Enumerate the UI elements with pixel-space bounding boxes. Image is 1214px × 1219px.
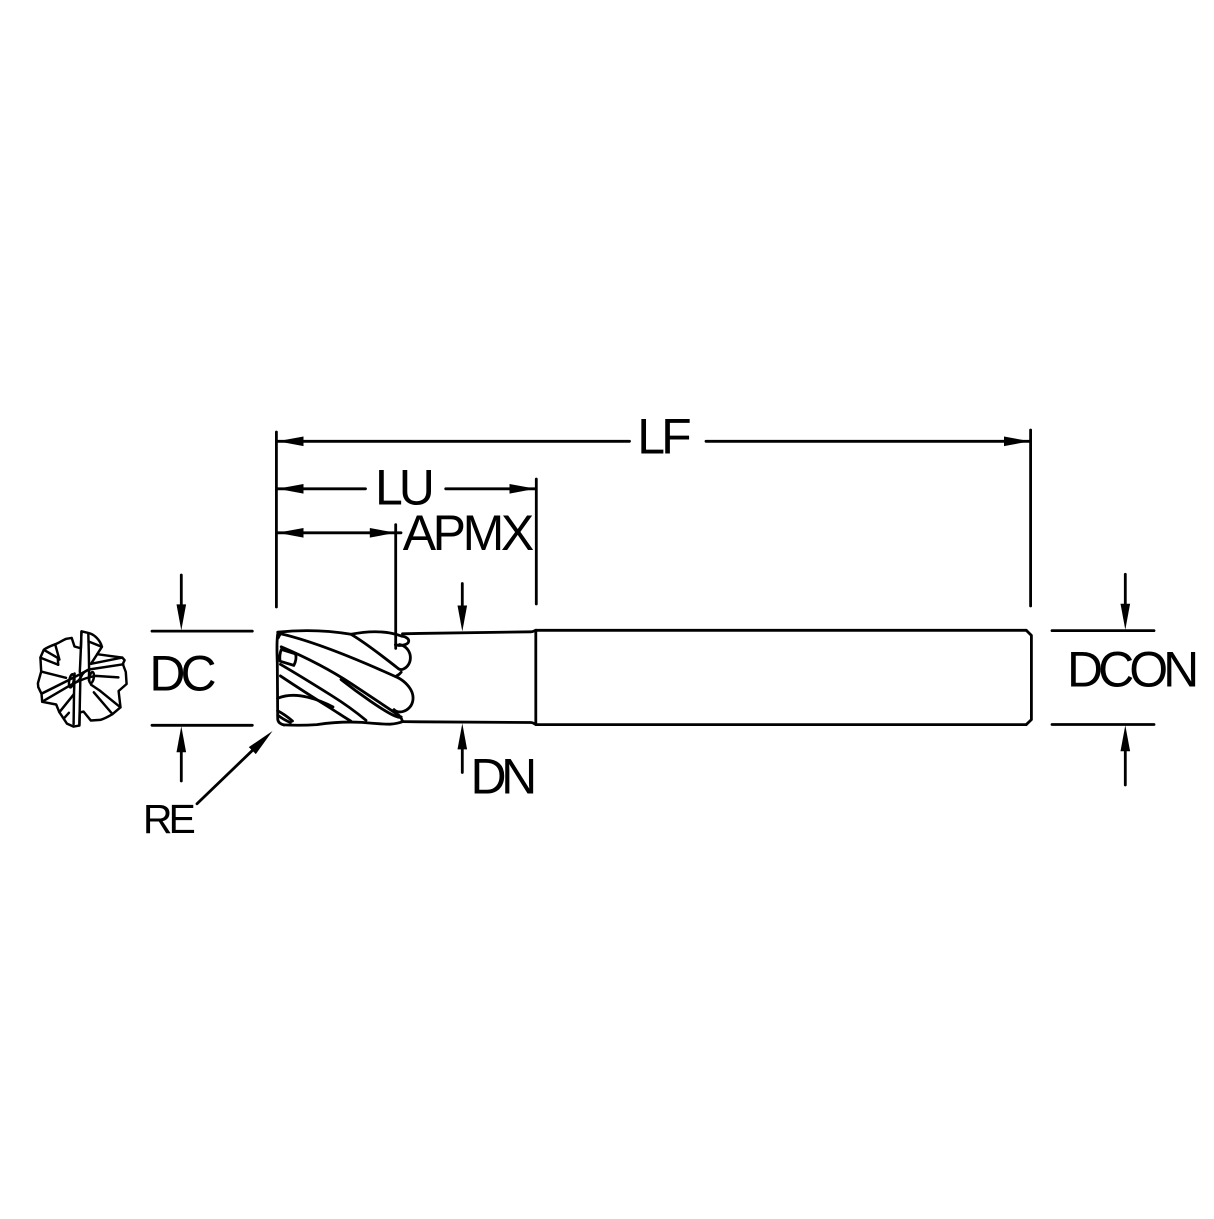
dimension line DCON bottom: [1052, 723, 1154, 726]
flute diagonal C long leaf: [281, 647, 402, 722]
arrowhead DCON up: [1121, 725, 1131, 751]
end view bar lower-right edge: [79, 677, 80, 726]
arrowhead LU right: [510, 484, 536, 494]
extension line LU right: [535, 479, 538, 604]
cap2 right: [399, 645, 411, 670]
end view right eye: [88, 672, 94, 684]
extension line LF right: [1029, 430, 1032, 606]
flute diagonal A: [351, 634, 399, 669]
extension line left (LF/LU/APMX origin): [275, 432, 278, 607]
leader line RE: [197, 748, 255, 803]
arrowhead DC up: [177, 726, 187, 752]
arrow tail DN down: [461, 584, 464, 607]
end view LR strip upper: [100, 691, 120, 707]
svg-text:APMX: APMX: [403, 505, 534, 561]
bottom-left leaf top: [278, 695, 333, 707]
shank end cap: [1026, 630, 1031, 724]
end view right strip upper: [91, 658, 122, 664]
svg-text:DC: DC: [149, 646, 215, 702]
svg-text:DCON: DCON: [1067, 642, 1196, 698]
arrowhead DC down: [177, 604, 187, 630]
dimension line DC top: [152, 630, 252, 633]
arrow tail DN up: [461, 749, 464, 773]
end view UL strip lower: [41, 658, 59, 665]
arrowhead LF left: [278, 437, 304, 447]
dimension line LF: [278, 440, 1031, 443]
arrowhead APMX right: [370, 528, 396, 538]
svg-text:RE: RE: [143, 796, 195, 842]
end view long diagonal 2: [42, 676, 118, 702]
flute sliver tip between caps: [397, 672, 401, 676]
dimension line LU: [278, 487, 536, 490]
end view silhouette: [38, 631, 127, 726]
end view left eye: [68, 674, 75, 688]
arrow tail DCON down: [1124, 574, 1127, 604]
shank step vertical: [534, 630, 537, 724]
end view BL wedge line: [64, 713, 69, 718]
cap1 top right: [395, 636, 408, 645]
dimension line DCON top: [1052, 629, 1154, 632]
neck bottom line: [403, 722, 537, 725]
bottom-left corner line: [278, 715, 291, 722]
arrowhead DN up: [458, 723, 468, 749]
end view UR wing radial: [89, 642, 102, 647]
arrow tail DC down: [180, 575, 183, 605]
arrowhead LU left: [278, 484, 304, 494]
svg-text:LF: LF: [637, 408, 690, 464]
dimension line APMX: [278, 531, 402, 534]
end view UL wing radial: [55, 644, 59, 659]
cap3 big right leaf end: [394, 678, 413, 712]
arrowhead DCON down: [1121, 604, 1131, 630]
flute diagonal B: [281, 634, 398, 678]
bottom-left small cap: [278, 711, 293, 721]
end view LL strip upper: [42, 680, 69, 693]
end view LL sector top: [41, 672, 66, 678]
end view LR pentagon bottom: [91, 685, 100, 691]
end view LR strip lower: [94, 692, 113, 714]
neck top line: [403, 630, 537, 634]
dimension line DC bottom: [152, 724, 252, 727]
end view UL strip upper: [44, 650, 58, 658]
shank bottom line: [536, 723, 1026, 726]
extension line APMX right: [394, 525, 397, 649]
flute diagonal E: [280, 676, 351, 721]
end view UL strip tip: [57, 658, 60, 665]
cutter bottom edge: [284, 722, 403, 726]
cutter left edge: [277, 632, 284, 725]
end view bar lower-left edge: [74, 674, 75, 725]
end view center S-curve: [74, 670, 89, 684]
arrowhead LF right: [1004, 437, 1030, 447]
svg-text:DN: DN: [471, 749, 535, 805]
shank top line: [536, 629, 1026, 632]
cutter top edge humps: [278, 631, 402, 637]
flute facet quad: [280, 649, 296, 665]
end view UR pie edge: [91, 654, 97, 664]
corner facet line top-left: [278, 632, 281, 638]
flute narrow leaf lower edge F: [341, 680, 401, 718]
flute diagonal D: [280, 664, 366, 720]
end view bar upper-left edge: [80, 632, 82, 673]
arrowhead DN down: [458, 606, 468, 632]
arrow tail DC up: [180, 752, 183, 781]
end view bar upper-right edge: [87, 633, 90, 680]
end view BL radial: [59, 694, 74, 712]
arrow tail DCON up: [1124, 751, 1127, 785]
arrowhead RE leader: [249, 731, 273, 754]
arrowhead APMX left: [278, 528, 304, 538]
end view long diagonal 1: [42, 664, 124, 693]
